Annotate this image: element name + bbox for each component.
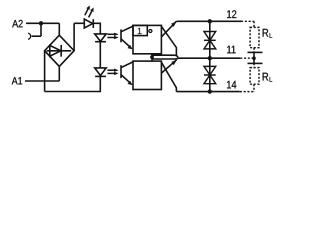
node A2 junction dot (39, 21, 43, 25)
opto LED B emission arrow 2 (107, 72, 118, 75)
opto LED B cathode bar (95, 75, 106, 77)
wire A2 down to bridge top (58, 23, 60, 35)
wire block link to rail 11 upper (152, 55, 178, 58)
phototransistor Q2 collector (121, 62, 133, 68)
arrowhead U1 output (171, 21, 176, 27)
phototransistor Q2 emitter (121, 75, 130, 83)
label RL1 (263, 29, 269, 37)
supply bar 2 (248, 62, 263, 64)
wire bridge DC+ up (73, 23, 75, 50)
label 14 (227, 81, 236, 89)
rail 11 dashed extension (240, 57, 253, 59)
TVS1 middle bar (204, 39, 216, 41)
link between blocks (151, 54, 153, 61)
phototransistor Q1 collector (121, 26, 133, 32)
rail 14 dashed extension (240, 91, 254, 93)
TVS suppressor 2 vertical (209, 58, 211, 91)
wire LED to opto chain corner (93, 23, 100, 34)
label 11 (227, 46, 235, 54)
node dot rail12/TVS1 (208, 19, 212, 23)
node dot rail14/TVS2 (208, 89, 212, 93)
phototransistor Q1 base bar (120, 29, 122, 42)
RL1 bottom lead (253, 48, 255, 53)
supply link vertical (253, 53, 255, 64)
wire to indicator LED (74, 22, 84, 24)
wire A1 horizontal (25, 80, 59, 82)
opto LED B triangle (95, 68, 107, 76)
opto LED A triangle (95, 34, 107, 42)
arrowhead U2 output (171, 60, 176, 65)
link junction dot (150, 55, 154, 59)
opto LED A cathode bar (95, 41, 106, 43)
wire opto chain bottom to bus (45, 76, 101, 91)
wire U1 crossover down (161, 26, 176, 56)
RL2 bottom lead dashed (253, 84, 255, 91)
label digit 1 (138, 28, 142, 34)
indicator LED emission arrow 1 (85, 5, 90, 15)
supply bar 1 (248, 51, 263, 53)
bridge diode triangle (50, 45, 61, 56)
state circle (149, 30, 152, 33)
load resistor RL2 box dashed (250, 68, 259, 85)
bridge diode cathode bar (60, 45, 62, 57)
TVS2 lower triangle (204, 75, 216, 84)
socket contact arc at A2 (28, 33, 31, 39)
label RL2 (263, 73, 269, 81)
RL2 top lead (253, 63, 255, 67)
TVS suppressor 1 vertical (209, 21, 211, 58)
wire U2 output to rail 11 (161, 60, 176, 73)
rail 14 (176, 91, 239, 93)
bridge rectifier diamond (45, 35, 75, 66)
wire block link to rail 11 lower (152, 57, 178, 60)
terminal label A2 (12, 20, 22, 27)
opto LED A emission arrow 1 (107, 33, 118, 36)
phototransistor Q2 base bar (120, 65, 122, 78)
wire A1 up to bridge bottom (58, 66, 60, 81)
rail 12 (176, 20, 241, 22)
supply node dot (252, 56, 256, 60)
TVS2 upper triangle (204, 66, 216, 75)
output block U2 box (133, 61, 161, 89)
wire junction dot down (40, 23, 42, 36)
wire bridge DC- down crossing A1 (44, 51, 46, 92)
rail 11 (178, 57, 240, 59)
TVS1 lower triangle (204, 40, 216, 49)
output block U1 box (133, 25, 161, 53)
bridge diode lead (47, 50, 72, 52)
TVS1 upper triangle (204, 32, 216, 41)
rail 12 dashed extension (241, 20, 254, 22)
phototransistor Q1 emitter arrow (128, 45, 133, 50)
label 12 (227, 10, 236, 18)
terminal label A1 (12, 77, 22, 84)
indicator LED cathode bar (92, 19, 94, 28)
opto LED B emission arrow 1 (107, 69, 118, 72)
phototransistor Q2 emitter arrow (128, 81, 133, 86)
TVS2 middle bar (204, 74, 216, 76)
wire opto chain middle (99, 42, 101, 69)
wire U2 crossover down (161, 62, 176, 91)
load resistor RL1 box dashed (250, 27, 259, 47)
label small box 1 (133, 25, 147, 35)
indicator LED D1 triangle (84, 19, 92, 28)
opto LED A emission arrow 2 (107, 36, 118, 39)
indicator LED emission arrow 2 (89, 8, 94, 18)
wire U1 output to rail 12 (161, 21, 176, 37)
wire arc to junction (32, 35, 41, 37)
load resistor RL1 lead top dashed (253, 21, 255, 27)
wire A2 horizontal (26, 22, 59, 24)
phototransistor Q1 emitter (121, 39, 130, 47)
node dot rail11/TVS (208, 56, 212, 60)
